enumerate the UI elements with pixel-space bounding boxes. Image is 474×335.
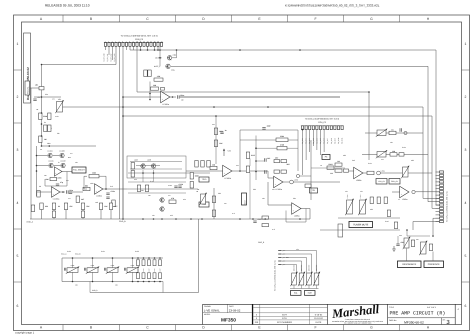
svg-text:DWG No.: DWG No. (389, 319, 397, 322)
resistor R53b (429, 244, 432, 251)
wire input vertical (41, 90, 43, 146)
transistor TR1 MUTE_L (166, 64, 170, 68)
resistor R40 (389, 129, 396, 135)
junction (41, 64, 43, 66)
capacitor C13a (106, 190, 114, 195)
resistor ladder RL1 (137, 260, 140, 266)
wire fx return (300, 175, 311, 177)
Marshall logo (330, 302, 383, 325)
wire pot drop (293, 285, 295, 289)
ground symbol (392, 246, 396, 251)
pot VR1 GAIN (55, 98, 63, 113)
resistor R17 (31, 205, 34, 212)
svg-text:C1: C1 (38, 96, 40, 99)
wire eq row (128, 172, 210, 174)
feedback wire IC10Ba (149, 82, 151, 100)
svg-text:TP10: TP10 (202, 178, 207, 181)
capacitor C40 (262, 124, 270, 129)
resistor R8 (76, 196, 84, 203)
svg-text:LC10Ba: LC10Ba (162, 103, 169, 106)
wire interstage (69, 191, 83, 193)
svg-text:6: 6 (17, 304, 19, 308)
svg-text:GND_A: GND_A (27, 221, 34, 224)
feedback loop wire 2 (84, 176, 87, 189)
resistor R6 (45, 178, 56, 182)
wire ladder bottom rail (62, 281, 163, 283)
wire ladder left end (61, 258, 63, 282)
junction (36, 170, 38, 172)
svg-text:G: G (370, 326, 373, 330)
wire diode row2b (54, 165, 60, 167)
junction (41, 96, 43, 98)
svg-text:TITLE: TITLE (389, 306, 395, 309)
resistor R31b (277, 144, 287, 150)
wire out2 (283, 181, 289, 183)
svg-text:C107: C107 (138, 268, 140, 272)
junction (159, 57, 161, 59)
pot ladder P2 (86, 267, 99, 274)
svg-text:L_CH: L_CH (281, 261, 285, 263)
wire eq row3 (128, 192, 186, 194)
resistor R27c (169, 197, 176, 203)
transistor TR8B (151, 164, 155, 168)
wire fx vertical (310, 140, 312, 200)
node circle L23a (377, 171, 381, 175)
junction (153, 172, 155, 174)
svg-text:5: 5 (17, 254, 19, 258)
wire CON_P2 pin drop (309, 130, 311, 152)
svg-text:C117: C117 (258, 218, 262, 221)
wire CON_P3 pin drop (147, 46, 149, 50)
wire pot bank feed (279, 251, 317, 274)
junction (154, 257, 156, 259)
wire bus net5 (180, 96, 340, 98)
resistor ladder RL2 (142, 260, 145, 266)
wire to gnd (41, 210, 43, 220)
pot bank VR13 (313, 272, 320, 286)
wire to gain pot (34, 96, 61, 98)
junction (154, 281, 156, 283)
capacitor C11b (69, 192, 72, 194)
svg-text:C107: C107 (143, 268, 145, 272)
resistor ladder RL4 (153, 260, 156, 266)
node circle FX ret (296, 174, 299, 177)
junction (190, 218, 192, 220)
resistor R1 (39, 113, 48, 120)
svg-text:C107: C107 (149, 268, 151, 272)
wire CON_P4 stub (436, 191, 440, 193)
wire CON_P3 pin drop (140, 46, 142, 50)
wire input (30, 87, 41, 89)
pot ladder P1 (66, 267, 79, 274)
svg-text:LC10A: LC10A (47, 149, 53, 152)
junction (72, 281, 74, 283)
svg-text:MF350-60-02: MF350-60-02 (404, 320, 424, 324)
resistor R23 (190, 182, 193, 189)
svg-text:TO CON_L/3 (MF350-60-03, SHT 1: TO CON_L/3 (MF350-60-03, SHT 1 of 3) (120, 35, 157, 38)
svg-text:MF350: MF350 (221, 318, 236, 324)
op-amp IC9Ba (95, 184, 104, 198)
wire to gnd (65, 210, 67, 220)
wire row1 (365, 132, 423, 134)
svg-text:F: F (314, 326, 316, 330)
wire bend2 (268, 177, 274, 179)
wire to ic9 (268, 204, 292, 206)
junction (148, 281, 150, 283)
diode LC10A (48, 153, 52, 157)
pot VR7 (358, 199, 366, 215)
wire bus net1 (130, 50, 440, 205)
resistor R32a (274, 157, 280, 163)
resistor R32 (262, 216, 269, 219)
wire in (186, 170, 223, 172)
junction (92, 281, 94, 283)
pot VR6 (345, 199, 353, 215)
resistor R51b (394, 222, 397, 229)
junction (239, 170, 241, 172)
wire input shield vertical (30, 88, 32, 219)
resistor R16 (99, 203, 108, 210)
wire centre vert feed (215, 116, 217, 164)
wire bus net4 (137, 92, 369, 160)
resistor R52b (411, 240, 414, 247)
wire CON_P4 stub (436, 178, 440, 180)
connector CON_P3 (104, 43, 163, 47)
svg-text:L-VE IGNAL: L-VE IGNAL (204, 308, 220, 312)
ladder rotated value labels (138, 268, 162, 272)
label box TP11 (199, 202, 209, 207)
wire ladder tie up (112, 258, 114, 268)
label box RCH_OL (389, 179, 400, 185)
transistor TR8A (141, 164, 145, 168)
resistor R44 (335, 169, 342, 172)
resistor R4 (48, 125, 51, 132)
junction (175, 218, 177, 220)
junction (252, 218, 254, 220)
wire CON_P4 stub (436, 184, 440, 186)
wire diode row1 (37, 155, 48, 157)
wire CON_P3 pin drop (119, 46, 121, 163)
resistor R24 (195, 161, 198, 168)
wire CON_P2 pin drop (305, 130, 307, 160)
capacitor C13b (106, 197, 109, 199)
connector CON_P4 (440, 170, 444, 223)
op-amp IC10Bb (223, 165, 232, 180)
capacitor ladder (105, 268, 106, 271)
transistor TR9A (160, 198, 164, 202)
wire CON_P4 stub (436, 181, 440, 183)
wire eq inner row2 (130, 168, 182, 170)
Doc.No. sidebar box (24, 33, 31, 103)
svg-text:2: 2 (17, 95, 19, 99)
svg-text:F: F (314, 17, 316, 21)
wire out (301, 208, 310, 210)
junction (122, 115, 124, 117)
junction (176, 49, 178, 51)
svg-text:1: 1 (465, 42, 467, 46)
svg-text:G: G (370, 17, 373, 21)
svg-text:L_CH: L_CH (281, 257, 285, 259)
wire vert (213, 188, 215, 219)
wire CON_P3 pin drop (129, 46, 131, 50)
svg-text:C13a: C13a (111, 190, 115, 193)
svg-text:4K7: 4K7 (114, 205, 117, 208)
wire drop2 (309, 209, 311, 220)
wire vert drop (119, 163, 121, 219)
resistor R10 (89, 172, 99, 178)
svg-text:ECA: ECA (282, 317, 287, 320)
junction (159, 49, 161, 51)
wire ladder tie up (132, 258, 134, 268)
svg-text:LC10Aa: LC10Aa (53, 198, 60, 201)
svg-text:L23a: L23a (381, 170, 385, 173)
svg-text:C34a: C34a (180, 94, 184, 97)
wire ladder tie down (72, 272, 74, 281)
wire in (392, 191, 400, 193)
wire CON_P4 exit1 (413, 222, 440, 231)
resistor R33a (274, 170, 280, 173)
junction (299, 218, 301, 220)
svg-text:EQL: EQL (294, 292, 298, 295)
wire eq through (127, 188, 198, 190)
wire CON_P3 pin drop (105, 46, 107, 50)
svg-text:PRE AMP CIRCUIT (R): PRE AMP CIRCUIT (R) (390, 311, 446, 317)
svg-text:TUNER MUTE: TUNER MUTE (353, 223, 369, 226)
resistor R51 (144, 70, 152, 77)
svg-text:R103: R103 (328, 163, 332, 166)
junction (159, 281, 161, 283)
resistor R41 (390, 150, 397, 156)
junction (41, 112, 43, 114)
title block frame (203, 304, 462, 324)
wire diode row2 (37, 165, 49, 167)
wire stage2 out (103, 188, 127, 190)
svg-text:5-10-02: 5-10-02 (315, 314, 323, 317)
svg-text:RELEASED 09 JUL 2003 11:10: RELEASED 09 JUL 2003 11:10 (45, 4, 90, 8)
wire GND rail center (30, 218, 310, 220)
wire row2 (362, 154, 428, 156)
resistor R29 (214, 140, 223, 147)
wire CON_P4 stub (436, 217, 440, 219)
wire eq row2 (136, 165, 160, 167)
wire out2 (380, 172, 432, 174)
resistor R9 (83, 184, 90, 190)
revision table (253, 304, 327, 324)
pot bank VR12 (306, 272, 313, 286)
svg-text:PRESENCE: PRESENCE (428, 263, 441, 266)
svg-text:GND_B: GND_B (258, 241, 265, 244)
wire CON_P4 stub (436, 204, 440, 206)
resistor ladder RL5 (159, 260, 162, 266)
EQ block enclosure (127, 156, 186, 178)
capacitor C50 (400, 128, 402, 131)
svg-text:2K2: 2K2 (286, 163, 289, 166)
op-amp IC10Aa (52, 187, 61, 201)
svg-text:2: 2 (465, 95, 467, 99)
resistor R37 (246, 152, 255, 159)
junction (137, 257, 139, 259)
junction (267, 106, 269, 108)
svg-text:1u: 1u (225, 129, 227, 132)
wire eq inner row1 (130, 161, 182, 163)
junction (157, 49, 159, 51)
svg-text:4: 4 (465, 201, 467, 205)
junction (143, 257, 145, 259)
resistor ladder RL6 (137, 273, 140, 279)
wire pot bank rail (290, 288, 319, 290)
svg-text:10: 10 (136, 41, 138, 43)
wire lower rail (320, 229, 400, 231)
pot VR5 (401, 166, 409, 178)
capacitor C13A (174, 183, 183, 188)
rotated labels above detector (346, 193, 362, 198)
svg-text:L_CH: L_CH (281, 250, 285, 252)
junction (140, 49, 142, 51)
pot bank pin stubs (278, 251, 281, 265)
wire pot drop (316, 285, 318, 289)
pot bank VR11 (298, 272, 305, 286)
resistor R38 (246, 166, 249, 173)
capacitor C61 (220, 129, 226, 134)
w2 (349, 170, 354, 172)
wire CON_P4 stub (436, 211, 440, 213)
wire CON_P2 pin drop (323, 130, 325, 152)
wire left rail 2 (36, 146, 38, 196)
svg-text:6: 6 (465, 304, 467, 308)
wire opamp out (60, 191, 65, 193)
resistor R30 (210, 163, 217, 169)
svg-text:LC10Ba: LC10Ba (275, 188, 282, 191)
junction (147, 49, 149, 51)
wire eq inner row4 (128, 181, 186, 183)
wire to bright box (62, 171, 72, 173)
wire drop (267, 182, 269, 205)
svg-text:C107: C107 (160, 268, 162, 272)
wire CON_P4 stub (436, 174, 440, 176)
wire C34a to right (180, 96, 341, 98)
wire pot bank feed (279, 254, 312, 273)
label box PULL BRIGHT (72, 167, 86, 173)
svg-text:4: 4 (17, 201, 19, 205)
wire ladder return loop (90, 219, 199, 293)
title / dwg no box (388, 318, 456, 325)
wire mute_r out (172, 57, 177, 59)
resistor R43 (335, 160, 342, 166)
resistor R14 (64, 203, 73, 210)
resistor R35 (212, 210, 215, 217)
wire CON_P3 long drop (136, 46, 138, 92)
svg-text:47pF: 47pF (267, 124, 271, 127)
capacitor C34a (178, 94, 185, 99)
svg-text:LC10B: LC10B (59, 149, 65, 152)
wire ladder tie down (112, 272, 114, 281)
svg-text:K:\DRAWINGS\ISSUED\MF350\MF350: K:\DRAWINGS\ISSUED\MF350\MF350_60_02_ISS… (285, 4, 380, 8)
wire pot bank feed (279, 258, 307, 274)
wire to right block (293, 181, 340, 183)
wire CON_P3 pin drop (154, 46, 156, 50)
capacitor C117 (253, 218, 261, 223)
diode LC10B (60, 153, 64, 157)
drawn/model box (203, 304, 252, 312)
junction (62, 191, 64, 193)
svg-text:1: 1 (17, 42, 19, 46)
junction (239, 218, 241, 220)
resistor R20 (131, 163, 134, 170)
resistor R46 (367, 171, 374, 174)
wire row (42, 145, 97, 147)
wire diode row1b (53, 155, 59, 157)
svg-text:LC9Ba: LC9Ba (96, 195, 102, 198)
junction (72, 257, 74, 259)
svg-text:5: 5 (465, 254, 467, 258)
wire CON_P3 pin drop (108, 46, 110, 55)
junction (201, 218, 203, 220)
pot bank rotated labels (293, 264, 319, 271)
resistor R19 (109, 203, 117, 210)
wire CON_P2 pin drop (312, 130, 314, 146)
junction (239, 49, 241, 51)
resistor R27a (137, 185, 140, 192)
wire detector rail (338, 217, 400, 219)
wire bus net2 (64, 107, 440, 198)
svg-text:copyright page 1: copyright page 1 (15, 332, 35, 335)
junction (149, 93, 151, 95)
resistor ladder RL7 (142, 273, 145, 279)
wire ladder tie up (72, 258, 74, 268)
resistor R22 (190, 173, 199, 180)
svg-text:RCH_OL: RCH_OL (391, 180, 398, 183)
wire ladder top rail (62, 257, 163, 259)
resistor R42 (399, 153, 404, 156)
wire CON_P4 stub (436, 207, 440, 209)
wire ladder right drop (162, 282, 164, 293)
junction (172, 96, 174, 98)
svg-text:TP1: TP1 (312, 189, 315, 192)
resistor R15 (81, 203, 90, 210)
rotated tag box RECTIFY (242, 193, 247, 205)
capacitor C1 (33, 96, 40, 101)
capacitor C60 (396, 241, 403, 246)
resistor R32b (281, 160, 290, 167)
pot VR4 (376, 150, 387, 158)
wire CON_P4 stub (436, 201, 440, 203)
wire mute chain vertical (159, 46, 161, 66)
svg-text:4K7: 4K7 (275, 157, 278, 160)
resistor R12 (40, 203, 49, 210)
svg-text:15: 15 (154, 41, 156, 43)
label box TP1 (310, 188, 318, 193)
resistor R103 (327, 163, 334, 169)
wire CON_P4 stub (436, 221, 440, 223)
junction (153, 218, 155, 220)
junction (49, 145, 51, 147)
op-amp IC9Bb (354, 167, 363, 182)
wire vert drop2 (122, 97, 124, 219)
label box EQL (291, 291, 302, 296)
label box LCH_OL (376, 179, 387, 185)
resistor R54 (151, 84, 159, 90)
resistor R33b (281, 170, 287, 173)
junction (41, 123, 43, 125)
svg-text:L_CH: L_CH (281, 264, 285, 266)
wire CON_P3 pin drop (126, 46, 128, 50)
svg-text:LCH_OL: LCH_OL (378, 180, 385, 183)
resistor R49 (384, 197, 387, 204)
svg-text:MODEL: MODEL (204, 313, 210, 316)
junction (406, 229, 408, 231)
resistor R45 (344, 169, 349, 172)
resistor R7 (37, 191, 40, 198)
